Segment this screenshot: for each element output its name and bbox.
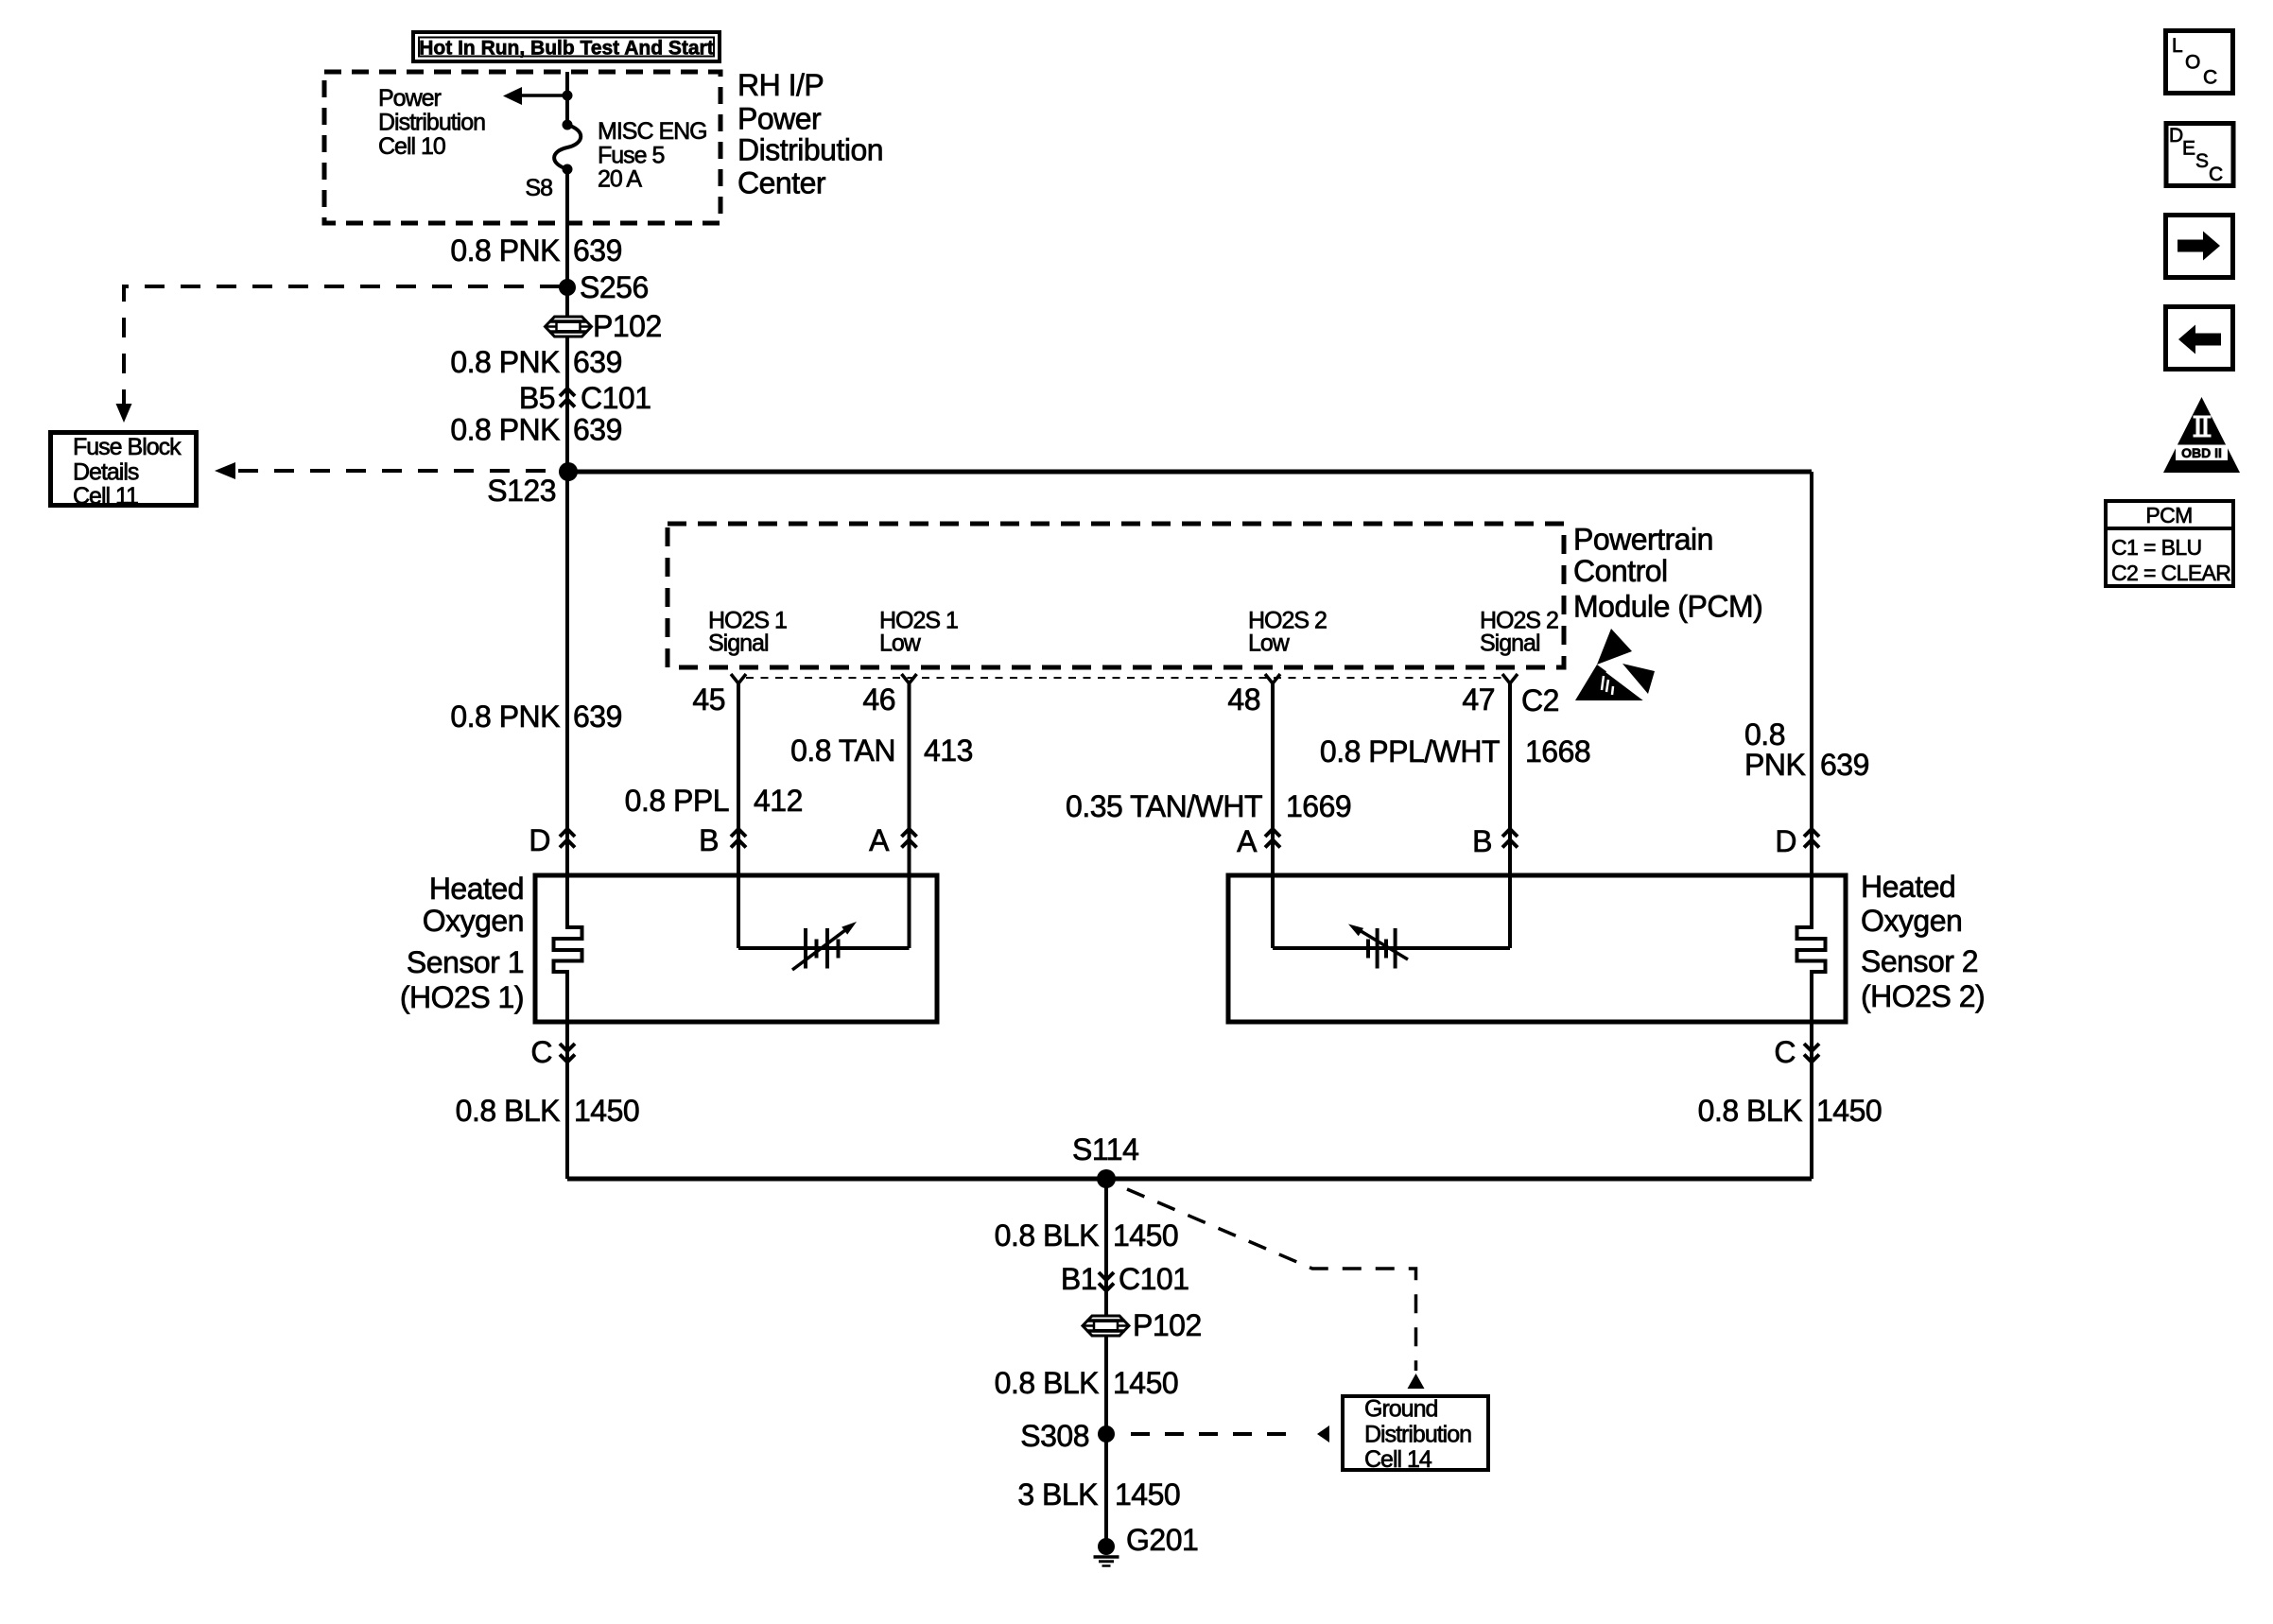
svg-text:E: E xyxy=(2182,138,2195,160)
svg-text:1450: 1450 xyxy=(1113,1366,1178,1400)
svg-text:Heated: Heated xyxy=(429,872,524,906)
svg-text:B: B xyxy=(699,823,719,857)
svg-text:(HO2S 1): (HO2S 1) xyxy=(400,980,524,1014)
svg-text:639: 639 xyxy=(573,700,622,734)
svg-text:S123: S123 xyxy=(487,474,556,508)
svg-text:C: C xyxy=(1774,1035,1796,1069)
svg-text:Distribution: Distribution xyxy=(737,133,883,167)
svg-text:0.8 BLK: 0.8 BLK xyxy=(456,1094,561,1128)
svg-text:3 BLK: 3 BLK xyxy=(1017,1477,1098,1512)
svg-text:Fuse Block: Fuse Block xyxy=(73,434,182,460)
svg-text:Power: Power xyxy=(737,102,822,136)
svg-text:OBD II: OBD II xyxy=(2181,445,2222,460)
svg-text:639: 639 xyxy=(573,233,622,268)
svg-text:0.8 PNK: 0.8 PNK xyxy=(450,413,560,447)
svg-text:1450: 1450 xyxy=(1816,1094,1882,1128)
svg-text:D: D xyxy=(2169,125,2183,147)
svg-text:Control: Control xyxy=(1573,554,1668,588)
svg-text:Signal: Signal xyxy=(708,631,769,657)
svg-text:Center: Center xyxy=(737,166,826,200)
svg-text:0.8 BLK: 0.8 BLK xyxy=(995,1218,1100,1253)
svg-text:O: O xyxy=(2185,52,2200,74)
svg-text:S256: S256 xyxy=(580,270,649,304)
svg-text:C: C xyxy=(2203,67,2217,89)
svg-text:B5: B5 xyxy=(519,381,555,415)
svg-text:Low: Low xyxy=(1248,631,1291,657)
svg-text:C: C xyxy=(530,1035,552,1069)
svg-text:G201: G201 xyxy=(1126,1523,1198,1557)
svg-text:(HO2S 2): (HO2S 2) xyxy=(1861,979,1985,1013)
svg-text:Oxygen: Oxygen xyxy=(1861,904,1962,938)
svg-text:P102: P102 xyxy=(593,309,662,343)
svg-text:S: S xyxy=(2195,150,2209,172)
svg-text:0.35 TAN/WHT: 0.35 TAN/WHT xyxy=(1066,789,1262,823)
svg-text:412: 412 xyxy=(754,784,803,818)
svg-text:D: D xyxy=(1775,824,1796,858)
svg-text:Heated: Heated xyxy=(1861,870,1955,904)
svg-text:RH I/P: RH I/P xyxy=(737,68,824,102)
svg-text:PNK: PNK xyxy=(1744,748,1805,782)
svg-text:D: D xyxy=(529,823,550,857)
svg-text:Powertrain: Powertrain xyxy=(1573,523,1713,557)
svg-text:Details: Details xyxy=(73,459,139,486)
svg-text:MISC ENG: MISC ENG xyxy=(598,118,707,145)
svg-text:0.8 BLK: 0.8 BLK xyxy=(995,1366,1100,1400)
svg-text:46: 46 xyxy=(862,682,895,717)
svg-text:45: 45 xyxy=(692,682,725,717)
svg-text:0.8 PNK: 0.8 PNK xyxy=(450,345,560,379)
svg-text:Cell 10: Cell 10 xyxy=(378,133,445,160)
svg-text:1450: 1450 xyxy=(1115,1477,1180,1512)
svg-text:20 A: 20 A xyxy=(598,166,642,193)
svg-text:1450: 1450 xyxy=(574,1094,639,1128)
svg-text:0.8 PNK: 0.8 PNK xyxy=(450,700,560,734)
svg-text:S308: S308 xyxy=(1020,1419,1089,1453)
svg-text:48: 48 xyxy=(1227,682,1260,717)
svg-text:Signal: Signal xyxy=(1480,631,1540,657)
svg-text:B: B xyxy=(1472,824,1492,858)
svg-text:B1: B1 xyxy=(1061,1262,1097,1296)
svg-text:Distribution: Distribution xyxy=(378,110,485,136)
svg-text:413: 413 xyxy=(924,734,973,768)
svg-text:Low: Low xyxy=(879,631,922,657)
svg-text:0.8 PPL: 0.8 PPL xyxy=(625,784,729,818)
svg-text:0.8 TAN: 0.8 TAN xyxy=(790,734,895,768)
svg-text:S114: S114 xyxy=(1072,1132,1138,1166)
svg-text:Sensor 2: Sensor 2 xyxy=(1861,944,1978,978)
svg-text:C: C xyxy=(2209,164,2223,185)
svg-text:Cell 11: Cell 11 xyxy=(73,483,138,510)
svg-text:A: A xyxy=(1237,824,1258,858)
svg-text:Cell 14: Cell 14 xyxy=(1364,1446,1432,1473)
svg-text:C2: C2 xyxy=(1521,683,1559,717)
svg-text:639: 639 xyxy=(1820,748,1869,782)
svg-text:C1 = BLU: C1 = BLU xyxy=(2111,535,2202,560)
svg-text:1450: 1450 xyxy=(1113,1218,1178,1253)
svg-text:0.8 BLK: 0.8 BLK xyxy=(1698,1094,1803,1128)
svg-text:Power: Power xyxy=(378,85,442,112)
svg-text:639: 639 xyxy=(573,345,622,379)
svg-text:Distribution: Distribution xyxy=(1364,1422,1471,1448)
svg-text:Fuse 5: Fuse 5 xyxy=(598,143,665,169)
svg-text:Sensor 1: Sensor 1 xyxy=(407,945,524,979)
svg-text:Ground: Ground xyxy=(1364,1396,1437,1423)
svg-text:0.8 PPL/WHT: 0.8 PPL/WHT xyxy=(1320,734,1500,769)
svg-text:Oxygen: Oxygen xyxy=(423,904,524,938)
svg-text:L: L xyxy=(2172,35,2183,57)
svg-text:1669: 1669 xyxy=(1286,789,1351,823)
svg-text:639: 639 xyxy=(573,413,622,447)
svg-text:P102: P102 xyxy=(1133,1308,1202,1342)
svg-text:47: 47 xyxy=(1462,682,1495,717)
svg-text:Module (PCM): Module (PCM) xyxy=(1573,590,1762,624)
svg-text:Hot In Run, Bulb Test And Star: Hot In Run, Bulb Test And Start xyxy=(419,38,713,60)
svg-text:PCM: PCM xyxy=(2145,503,2192,527)
svg-text:0.8 PNK: 0.8 PNK xyxy=(450,233,560,268)
svg-text:A: A xyxy=(869,823,890,857)
svg-text:0.8: 0.8 xyxy=(1744,717,1785,752)
svg-text:C2 = CLEAR: C2 = CLEAR xyxy=(2111,561,2230,585)
svg-text:1668: 1668 xyxy=(1525,734,1590,769)
svg-text:C101: C101 xyxy=(1119,1262,1189,1296)
svg-text:S8: S8 xyxy=(525,175,552,201)
svg-text:C101: C101 xyxy=(581,381,651,415)
